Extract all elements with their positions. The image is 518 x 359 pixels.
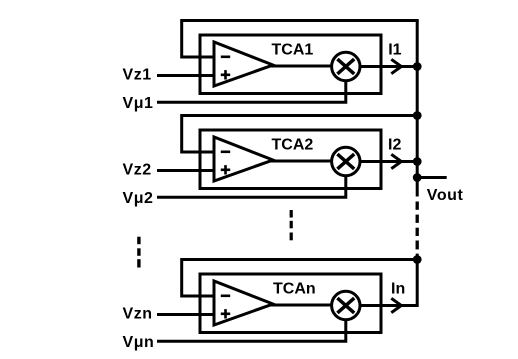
- op-amp OTA of TCA1: [214, 42, 273, 86]
- box: TCAn block outline: [200, 274, 381, 333]
- box: TCA2 block outline: [200, 130, 381, 189]
- wire: output summing bus (dashed continuation): [416, 202, 419, 250]
- svg-text:Vμ2: Vμ2: [123, 190, 154, 207]
- wire: feedback top of TCA1 (output bus to inverting input): [182, 21, 418, 58]
- svg-text:I1: I1: [388, 41, 401, 58]
- wire: feedback top of TCAn (output bus to inverting input): [182, 260, 418, 297]
- wire: Vout terminal stub: [417, 176, 447, 179]
- arrowhead: output current In direction: [391, 298, 401, 312]
- wire: Vz1 lead to non-inverting input: [157, 74, 215, 77]
- pin label: inverting input (−) of TCA2: [221, 151, 230, 154]
- wire: output summing bus (upper solid run): [416, 21, 419, 197]
- wire: multiplier output of TCAn to bus: [357, 304, 417, 307]
- multiplier (×) of TCA1: [332, 52, 360, 80]
- svg-text:TCA1: TCA1: [272, 41, 314, 58]
- svg-text:Vμ1: Vμ1: [123, 95, 154, 112]
- junction: I2 into output bus: [413, 157, 422, 166]
- svg-text:I2: I2: [388, 136, 401, 153]
- svg-text:Vzn: Vzn: [123, 306, 153, 323]
- wire: op-amp output to multiplier of TCA2: [271, 160, 334, 163]
- arrowhead: output current I2 direction: [391, 154, 401, 168]
- junction: Vout tap on bus: [413, 173, 422, 182]
- svg-text:In: In: [391, 280, 405, 297]
- op-amp OTA of TCAn: [214, 281, 273, 325]
- ellipsis: repeated stages (centre column): [290, 210, 293, 240]
- junction: feedback tap of TCA2 on output bus: [413, 111, 422, 120]
- multiplier (×) of TCAn: [332, 291, 360, 319]
- wire: Vμn lead to multiplier control input: [157, 317, 346, 341]
- wire: output summing bus (lower solid run to TCAn): [416, 254, 419, 307]
- op-amp OTA of TCA2: [214, 137, 273, 181]
- wire: op-amp output to multiplier of TCA1: [271, 65, 334, 68]
- wire: Vμ2 lead to multiplier control input: [157, 173, 346, 197]
- junction: feedback tap of TCAn on output bus: [413, 255, 422, 264]
- wire: Vμ1 lead to multiplier control input: [157, 78, 346, 102]
- svg-text:Vz1: Vz1: [123, 67, 152, 84]
- svg-text:TCAn: TCAn: [273, 280, 316, 297]
- pin label: inverting input (−) of TCAn: [221, 294, 230, 297]
- box: TCA1 block outline: [200, 35, 381, 94]
- wire: Vz2 lead to non-inverting input: [157, 169, 215, 172]
- arrowhead: output current I1 direction: [391, 59, 401, 73]
- pin label: inverting input (−) of TCA1: [221, 55, 230, 58]
- wire: op-amp output to multiplier of TCAn: [271, 304, 334, 307]
- wire: multiplier output of TCA1 to bus: [357, 65, 417, 68]
- pin label: non-inverting input (+) of TCAn: [221, 309, 230, 318]
- wire: multiplier output of TCA2 to bus: [357, 160, 417, 163]
- svg-text:TCA2: TCA2: [272, 136, 314, 153]
- svg-text:Vout: Vout: [427, 187, 464, 204]
- multiplier (×) of TCA2: [332, 147, 360, 175]
- wire: Vzn lead to non-inverting input: [157, 313, 215, 316]
- wire: feedback top of TCA2 (output bus to inverting input): [182, 116, 418, 153]
- svg-text:Vz2: Vz2: [123, 162, 152, 179]
- pin label: non-inverting input (+) of TCA1: [221, 70, 230, 79]
- junction: I1 into output bus: [413, 62, 422, 71]
- pin label: non-inverting input (+) of TCA2: [221, 165, 230, 174]
- ellipsis: repeated stages (left column): [137, 237, 140, 268]
- svg-text:Vμn: Vμn: [123, 334, 155, 351]
